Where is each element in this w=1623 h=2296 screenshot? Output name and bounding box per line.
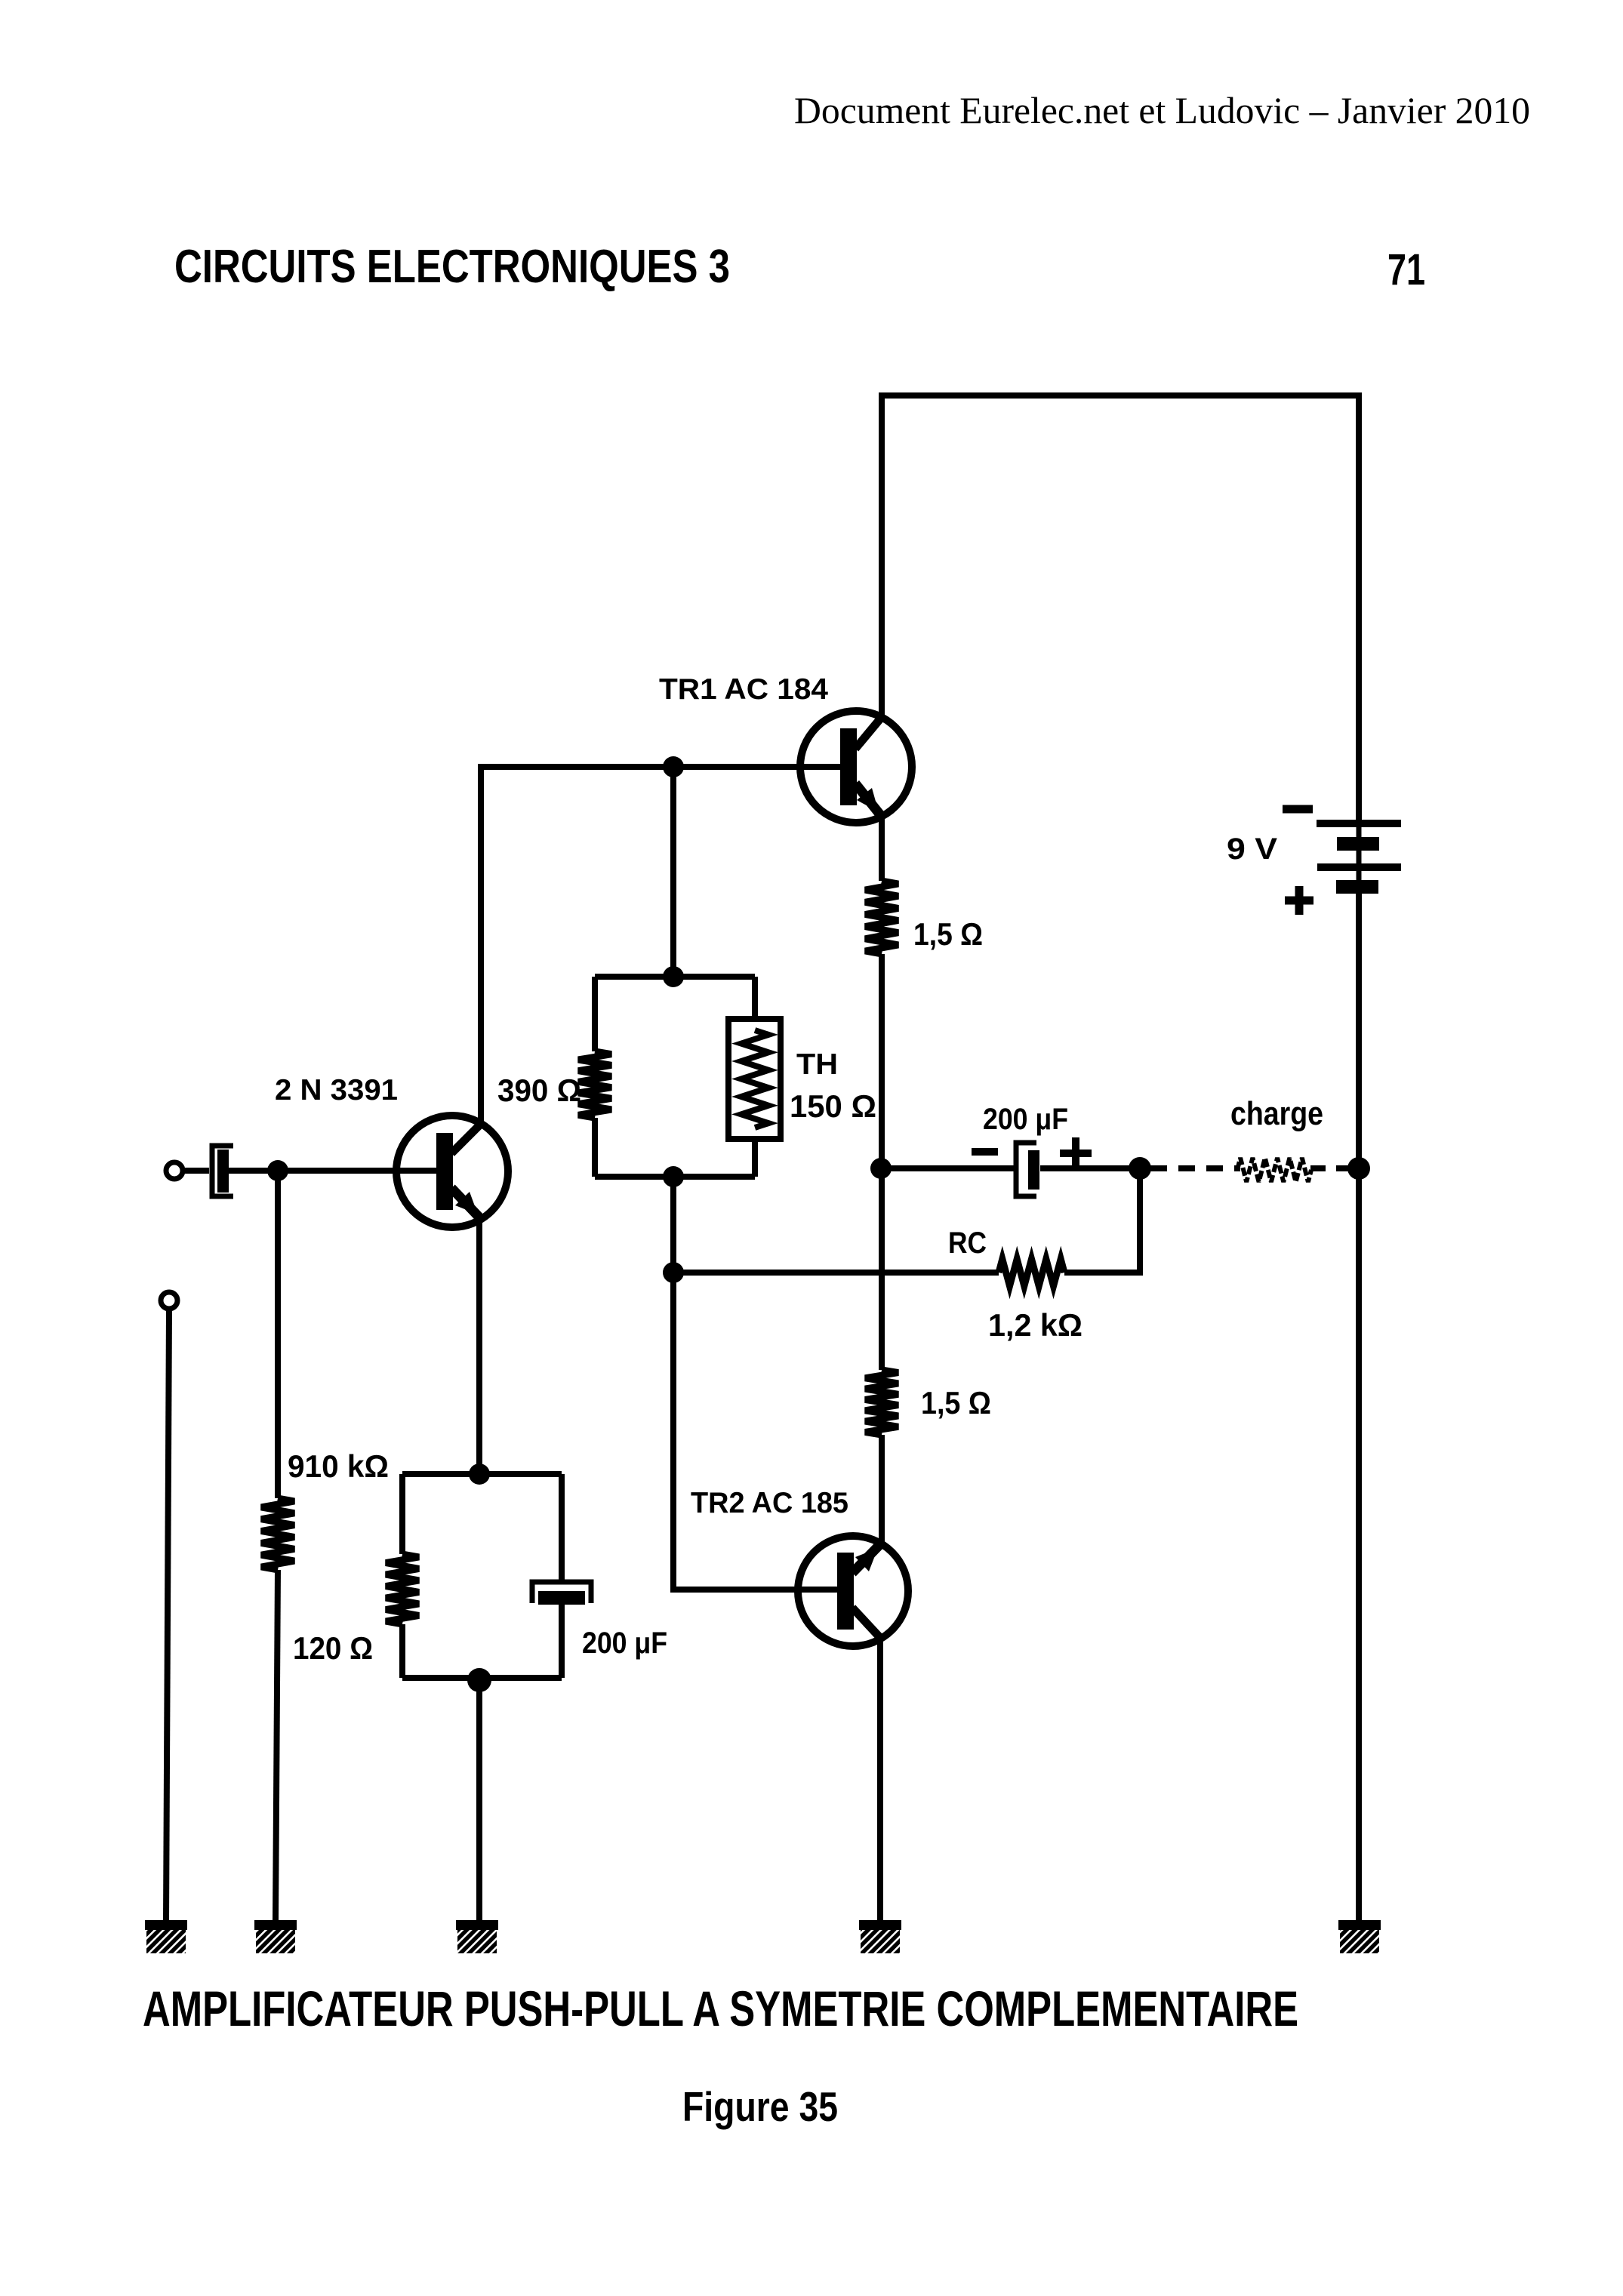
svg-text:910 kΩ: 910 kΩ xyxy=(288,1448,389,1484)
svg-text:RC: RC xyxy=(948,1226,987,1260)
svg-text:Document Eurelec.net et Ludovi: Document Eurelec.net et Ludovic – Janvie… xyxy=(794,89,1530,131)
svg-text:charge: charge xyxy=(1230,1095,1323,1132)
svg-text:1,5 Ω: 1,5 Ω xyxy=(913,916,983,952)
svg-text:AMPLIFICATEUR PUSH-PULL A SYME: AMPLIFICATEUR PUSH-PULL A SYMETRIE COMPL… xyxy=(143,1981,1298,2036)
svg-text:2 N 3391: 2 N 3391 xyxy=(275,1074,398,1106)
svg-text:200 μF: 200 μF xyxy=(983,1103,1068,1136)
svg-text:TR2 AC 185: TR2 AC 185 xyxy=(691,1487,848,1519)
svg-text:390 Ω: 390 Ω xyxy=(497,1073,581,1108)
svg-text:TR1 AC 184: TR1 AC 184 xyxy=(659,673,828,706)
svg-text:9 V: 9 V xyxy=(1227,833,1277,866)
svg-text:150 Ω: 150 Ω xyxy=(790,1088,876,1124)
svg-text:1,2 kΩ: 1,2 kΩ xyxy=(988,1307,1083,1343)
svg-text:200 μF: 200 μF xyxy=(582,1627,667,1660)
svg-text:CIRCUITS ELECTRONIQUES 3: CIRCUITS ELECTRONIQUES 3 xyxy=(174,241,730,293)
svg-text:Figure 35: Figure 35 xyxy=(682,2083,838,2130)
svg-text:1,5 Ω: 1,5 Ω xyxy=(921,1385,991,1420)
svg-text:71: 71 xyxy=(1387,245,1425,294)
svg-text:120 Ω: 120 Ω xyxy=(293,1630,373,1666)
svg-text:TH: TH xyxy=(796,1048,838,1081)
